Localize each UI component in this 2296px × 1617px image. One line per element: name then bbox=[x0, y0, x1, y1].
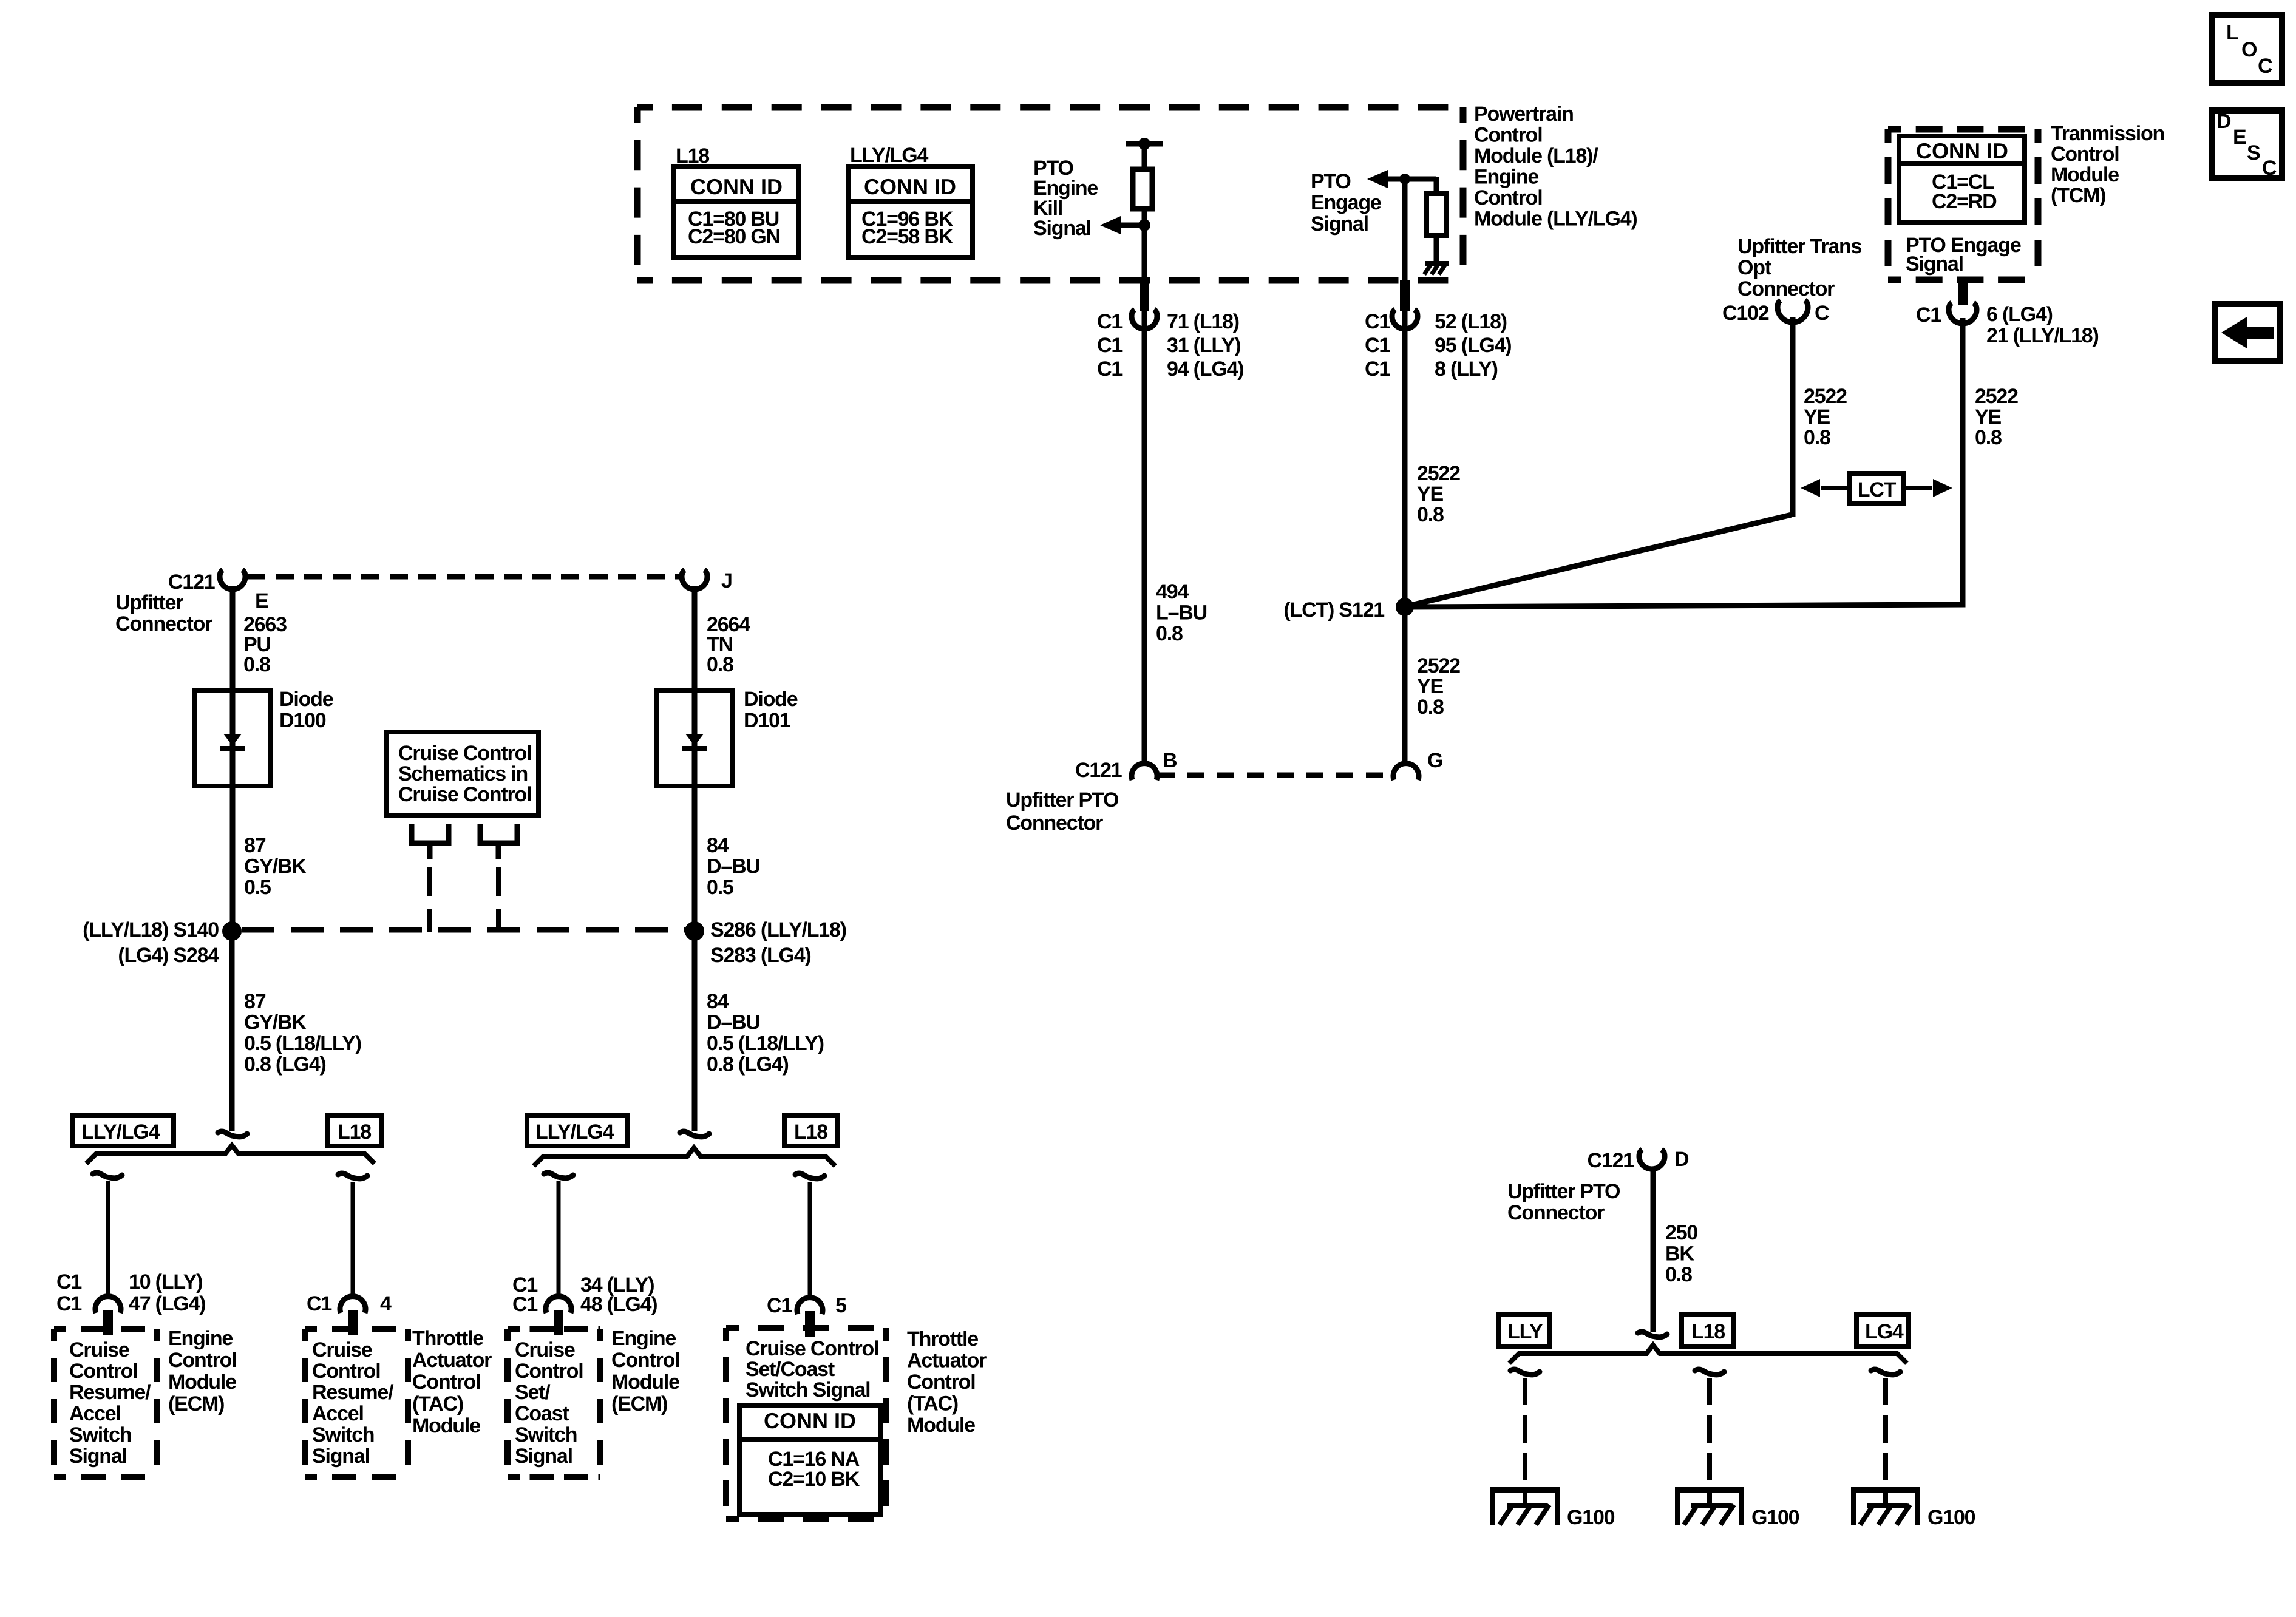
svg-text:C1: C1 bbox=[1365, 358, 1390, 381]
svg-text:CONN ID: CONN ID bbox=[1916, 138, 2008, 163]
ground G100 (LG4) bbox=[1851, 1487, 1975, 1529]
svg-text:G100: G100 bbox=[1567, 1506, 1615, 1529]
wire label 84 D-BU 0.5/0.8 (lower right) bbox=[707, 990, 824, 1076]
svg-text:Diode: Diode bbox=[744, 688, 798, 711]
svg-text:Set/Coast: Set/Coast bbox=[746, 1358, 835, 1381]
option tag LG4 bbox=[1856, 1315, 1909, 1346]
svg-text:Module: Module bbox=[168, 1371, 236, 1394]
label Upfitter PTO Connector (D) bbox=[1507, 1180, 1620, 1224]
resistor (PTO engine kill pull-up) bbox=[1133, 169, 1152, 209]
svg-text:C1: C1 bbox=[56, 1270, 81, 1293]
svg-text:0.8: 0.8 bbox=[1975, 426, 2002, 449]
connector C1 (TCM PTO engage) bbox=[1949, 280, 1977, 324]
svg-text:CONN ID: CONN ID bbox=[764, 1408, 856, 1433]
svg-text:Powertrain: Powertrain bbox=[1474, 103, 1574, 126]
svg-text:Control: Control bbox=[515, 1360, 583, 1383]
pin labels C1 5 bbox=[767, 1294, 846, 1317]
continuation mark on S286 drop bbox=[680, 1131, 709, 1137]
svg-text:Module (L18)/: Module (L18)/ bbox=[1474, 144, 1598, 168]
svg-text:L18: L18 bbox=[676, 144, 709, 168]
svg-text:C1: C1 bbox=[1097, 334, 1122, 357]
svg-text:C1: C1 bbox=[1365, 310, 1390, 333]
svg-text:47 (LG4): 47 (LG4) bbox=[129, 1292, 205, 1315]
continuation mark LLY ground branch bbox=[1510, 1369, 1540, 1375]
dashed link B to G (C121 Upfitter PTO Connector) bbox=[1158, 773, 1393, 778]
wire: D drop (ground feed) bbox=[1651, 1169, 1656, 1332]
svg-text:LLY/LG4: LLY/LG4 bbox=[850, 144, 929, 167]
label Tranmission Control Module (TCM) bbox=[2051, 122, 2164, 207]
svg-text:Control: Control bbox=[412, 1371, 480, 1394]
CONN ID table (LLY/LG4) bbox=[848, 167, 973, 257]
svg-text:Resume/: Resume/ bbox=[69, 1381, 151, 1404]
diode D100 bbox=[194, 690, 271, 786]
svg-text:C1: C1 bbox=[1365, 334, 1390, 357]
svg-text:E: E bbox=[2233, 126, 2246, 149]
svg-text:0.8 (LG4): 0.8 (LG4) bbox=[707, 1053, 789, 1076]
svg-text:L18: L18 bbox=[338, 1120, 371, 1144]
svg-text:C1: C1 bbox=[307, 1292, 331, 1315]
connector C1 (kill signal) at PCM boundary bbox=[1132, 280, 1157, 329]
label Powertrain Control Module (L18)/ Engine Control Module (LLY/LG4) bbox=[1474, 103, 1637, 231]
svg-text:C1: C1 bbox=[1916, 303, 1941, 327]
continuation mark branch A bbox=[93, 1173, 122, 1178]
svg-text:Actuator: Actuator bbox=[907, 1349, 987, 1372]
svg-text:Set/: Set/ bbox=[515, 1381, 551, 1404]
svg-text:C121: C121 bbox=[168, 571, 215, 594]
svg-text:87: 87 bbox=[244, 834, 266, 857]
wire: C102 drop bbox=[1790, 317, 1796, 517]
option tag LLY/LG4 (group C) bbox=[527, 1116, 628, 1146]
wire: S140 drop to option split bbox=[229, 931, 235, 1131]
pin labels C1 52/95/8 bbox=[1365, 310, 1511, 381]
svg-text:52 (L18): 52 (L18) bbox=[1435, 310, 1507, 333]
connector C102 pin C bbox=[1722, 300, 1829, 325]
wire: S286 drop to option split bbox=[692, 931, 698, 1131]
svg-text:Engine: Engine bbox=[611, 1327, 676, 1350]
svg-text:48 (LG4): 48 (LG4) bbox=[580, 1293, 657, 1316]
svg-text:C121: C121 bbox=[1075, 759, 1122, 782]
svg-text:Resume/: Resume/ bbox=[312, 1381, 394, 1404]
LCT option tag with arrows bbox=[1801, 473, 1952, 504]
svg-text:0.8: 0.8 bbox=[1417, 503, 1444, 526]
svg-text:Engine: Engine bbox=[1474, 166, 1538, 189]
svg-text:Cruise: Cruise bbox=[312, 1338, 372, 1361]
label Upfitter Trans Opt Connector bbox=[1737, 235, 1862, 300]
dashed box: Cruise Control Set/Coast Switch Signal (TAC) with CONN ID bbox=[726, 1328, 886, 1519]
svg-text:S283 (LG4): S283 (LG4) bbox=[710, 944, 811, 967]
svg-text:Cruise Control: Cruise Control bbox=[398, 742, 531, 765]
ground G100 (LLY) bbox=[1490, 1487, 1615, 1529]
svg-text:GY/BK: GY/BK bbox=[244, 1011, 307, 1034]
svg-text:LG4: LG4 bbox=[1865, 1320, 1904, 1343]
svg-text:Cruise: Cruise bbox=[515, 1338, 575, 1361]
connector C121 pin G bbox=[1393, 749, 1442, 780]
svg-text:C121: C121 bbox=[1588, 1149, 1634, 1172]
svg-text:4: 4 bbox=[380, 1292, 392, 1315]
svg-text:Connector: Connector bbox=[1737, 277, 1835, 300]
svg-text:Cruise Control: Cruise Control bbox=[746, 1337, 878, 1360]
svg-text:PTO: PTO bbox=[1311, 170, 1351, 193]
dashed box: Cruise Control Resume/Accel Switch Signal (TAC) bbox=[305, 1329, 408, 1477]
svg-text:L18: L18 bbox=[794, 1120, 827, 1144]
connector C121 pin E bbox=[168, 570, 268, 612]
svg-text:(ECM): (ECM) bbox=[611, 1392, 667, 1415]
connector C1 (ECM set/coast) bbox=[546, 1297, 571, 1335]
svg-text:E: E bbox=[255, 589, 268, 612]
svg-text:0.8: 0.8 bbox=[1417, 696, 1444, 719]
connector C121 pin B bbox=[1075, 749, 1177, 782]
labels (LLY/L18) S140 / (LG4) S284 bbox=[83, 918, 219, 967]
svg-text:2522: 2522 bbox=[1417, 654, 1460, 677]
option tag L18 (ground) bbox=[1682, 1315, 1734, 1346]
label PTO Engage Signal bbox=[1311, 170, 1381, 236]
svg-text:(LG4) S284: (LG4) S284 bbox=[118, 944, 219, 967]
svg-text:Upfitter PTO: Upfitter PTO bbox=[1507, 1180, 1620, 1203]
svg-text:G100: G100 bbox=[1751, 1506, 1799, 1529]
connector C1 (ECM resume/accel) bbox=[95, 1297, 121, 1335]
option tag L18 (group B) bbox=[328, 1116, 381, 1146]
svg-text:Connector: Connector bbox=[115, 612, 212, 636]
wire label 2522 YE 0.8 (upper) bbox=[1417, 462, 1460, 526]
label Throttle Actuator Control (TAC) Module - group D bbox=[907, 1327, 987, 1437]
ground G100 (L18) bbox=[1675, 1487, 1799, 1529]
svg-text:Signal: Signal bbox=[1311, 212, 1368, 236]
dashed box: Cruise Control Set/Coast Switch Signal (ECM) bbox=[508, 1329, 600, 1477]
svg-text:Signal: Signal bbox=[1906, 253, 1963, 276]
continuation mark LG4 ground branch bbox=[1871, 1369, 1900, 1375]
label Diode D101 bbox=[744, 688, 798, 732]
svg-text:YE: YE bbox=[1417, 675, 1443, 698]
svg-text:31 (LLY): 31 (LLY) bbox=[1167, 334, 1240, 357]
svg-text:Switch Signal: Switch Signal bbox=[746, 1378, 870, 1402]
svg-text:2522: 2522 bbox=[1417, 462, 1460, 485]
svg-text:Accel: Accel bbox=[312, 1402, 364, 1425]
label Engine Control Module (ECM) - group A bbox=[168, 1327, 236, 1415]
wire label 494 L-BU 0.8 bbox=[1156, 580, 1207, 645]
svg-text:494: 494 bbox=[1156, 580, 1189, 603]
svg-text:LCT: LCT bbox=[1858, 478, 1897, 501]
option tag LLY bbox=[1498, 1315, 1549, 1346]
junction dot on kill wire bbox=[1138, 219, 1150, 231]
node: kill-signal top bar with junction dot bbox=[1126, 138, 1163, 150]
svg-text:0.5: 0.5 bbox=[707, 876, 733, 899]
svg-text:Diode: Diode bbox=[279, 688, 333, 711]
back-arrow index box bbox=[2215, 304, 2280, 361]
svg-text:(LCT) S121: (LCT) S121 bbox=[1283, 598, 1384, 622]
splice S286 bbox=[685, 921, 704, 941]
resistor (PTO engage pull-down) bbox=[1427, 194, 1447, 236]
svg-text:87: 87 bbox=[244, 990, 266, 1013]
svg-text:C1: C1 bbox=[1097, 358, 1122, 381]
svg-text:LLY: LLY bbox=[1507, 1320, 1543, 1343]
svg-text:Module: Module bbox=[611, 1371, 679, 1394]
wire: engage signal vertical bbox=[1402, 179, 1408, 764]
dashed link S140 to S286 bbox=[242, 927, 685, 933]
pin labels C1 71/31/94 bbox=[1097, 310, 1243, 381]
svg-text:S286 (LLY/L18): S286 (LLY/L18) bbox=[710, 918, 846, 941]
svg-text:Schematics in: Schematics in bbox=[398, 762, 528, 785]
arrow: engage signal output bbox=[1367, 170, 1436, 188]
wire label 2522 YE 0.8 (lower) bbox=[1417, 654, 1460, 719]
wire: resistor to chassis ground bbox=[1434, 236, 1439, 265]
continuation mark branch D bbox=[795, 1173, 824, 1179]
svg-text:D: D bbox=[1674, 1148, 1689, 1171]
svg-text:Engage: Engage bbox=[1311, 191, 1381, 214]
svg-text:S: S bbox=[2247, 141, 2260, 164]
wire: J drop through diode D101 bbox=[692, 586, 698, 931]
svg-text:Control: Control bbox=[611, 1349, 679, 1372]
wire: resistor to junction bbox=[1142, 209, 1147, 229]
label Engine Control Module (ECM) - group C bbox=[611, 1327, 679, 1415]
svg-text:6 (LG4): 6 (LG4) bbox=[1986, 303, 2053, 326]
svg-text:Coast: Coast bbox=[515, 1402, 569, 1425]
dashed box: Cruise Control Resume/Accel Switch Signal (ECM) bbox=[54, 1329, 157, 1477]
wire label 2664 TN 0.8 bbox=[707, 613, 750, 676]
svg-text:L–BU: L–BU bbox=[1156, 602, 1207, 625]
svg-text:Cruise: Cruise bbox=[69, 1338, 129, 1361]
svg-text:Control: Control bbox=[69, 1360, 137, 1383]
svg-text:8 (LLY): 8 (LLY) bbox=[1435, 358, 1498, 381]
svg-text:C2=10 BK: C2=10 BK bbox=[768, 1468, 860, 1491]
svg-text:Throttle: Throttle bbox=[907, 1327, 978, 1351]
svg-text:Actuator: Actuator bbox=[412, 1349, 492, 1372]
svg-text:Throttle: Throttle bbox=[412, 1327, 483, 1350]
wire label 87 GY/BK 0.5/0.8 (lower left) bbox=[244, 990, 361, 1076]
svg-text:D101: D101 bbox=[744, 709, 790, 732]
svg-text:Control: Control bbox=[907, 1371, 975, 1394]
label PTO Engine Kill Signal bbox=[1033, 157, 1098, 240]
DESC index box bbox=[2212, 110, 2282, 180]
pin labels C1 6/21 bbox=[1916, 303, 2099, 347]
svg-text:D100: D100 bbox=[279, 709, 326, 732]
svg-text:C2=58 BK: C2=58 BK bbox=[861, 225, 954, 248]
LOC index box bbox=[2212, 15, 2282, 83]
svg-text:Control: Control bbox=[2051, 143, 2119, 166]
svg-text:5: 5 bbox=[835, 1294, 846, 1317]
continuation mark L18 ground branch bbox=[1695, 1369, 1724, 1375]
svg-text:D–BU: D–BU bbox=[707, 1011, 760, 1034]
svg-text:Cruise Control: Cruise Control bbox=[398, 783, 531, 806]
svg-text:G: G bbox=[1427, 749, 1442, 772]
PCM/ECM module dashed box bbox=[637, 104, 1463, 111]
svg-text:(TCM): (TCM) bbox=[2051, 184, 2105, 207]
wire label 250 BK 0.8 bbox=[1665, 1221, 1697, 1286]
svg-text:Control: Control bbox=[312, 1360, 380, 1383]
wire: diagonal C102 to splice S121 bbox=[1406, 515, 1792, 606]
svg-text:L18: L18 bbox=[1691, 1320, 1725, 1343]
dashed drop from right bracket bbox=[496, 867, 501, 932]
svg-text:(TAC): (TAC) bbox=[907, 1392, 958, 1415]
svg-text:250: 250 bbox=[1665, 1221, 1697, 1244]
svg-text:2522: 2522 bbox=[1804, 385, 1847, 408]
svg-text:84: 84 bbox=[707, 990, 729, 1013]
svg-text:0.5: 0.5 bbox=[244, 876, 271, 899]
connector C1 (TAC set/coast) bbox=[797, 1298, 823, 1337]
svg-text:GY/BK: GY/BK bbox=[244, 855, 307, 878]
svg-text:C1: C1 bbox=[512, 1293, 537, 1316]
svg-text:Connector: Connector bbox=[1006, 812, 1103, 835]
svg-text:D–BU: D–BU bbox=[707, 855, 760, 878]
label Upfitter PTO Connector (B/G) bbox=[1006, 788, 1119, 835]
dashed drop from left bracket bbox=[427, 867, 432, 932]
junction dot on engage wire bbox=[1399, 174, 1410, 185]
CONN ID table (TAC set/coast) bbox=[739, 1406, 880, 1514]
wire: branch A drop bbox=[106, 1181, 110, 1298]
svg-text:Module: Module bbox=[907, 1414, 975, 1437]
svg-text:95 (LG4): 95 (LG4) bbox=[1435, 334, 1511, 357]
svg-text:B: B bbox=[1163, 749, 1177, 772]
wire label 2663 PU 0.8 bbox=[243, 613, 287, 676]
svg-text:71 (L18): 71 (L18) bbox=[1167, 310, 1239, 333]
svg-text:BK: BK bbox=[1665, 1242, 1694, 1266]
continuation mark on S140 drop bbox=[218, 1131, 247, 1137]
svg-text:C1: C1 bbox=[767, 1294, 792, 1317]
wire label 2522 YE 0.8 (TCM) bbox=[1975, 385, 2018, 449]
connector C1 (TAC resume/accel) bbox=[340, 1297, 365, 1335]
svg-text:Accel: Accel bbox=[69, 1402, 121, 1425]
wire label 87 GY/BK 0.5 bbox=[244, 834, 307, 899]
option split brace (groups C/D) bbox=[534, 1148, 835, 1166]
option split brace (groups A/B) bbox=[86, 1145, 375, 1164]
svg-text:0.8: 0.8 bbox=[243, 653, 270, 676]
wire: branch B drop bbox=[351, 1182, 355, 1298]
svg-text:LLY/LG4: LLY/LG4 bbox=[81, 1120, 160, 1144]
svg-text:CONN ID: CONN ID bbox=[864, 174, 956, 199]
svg-text:CONN ID: CONN ID bbox=[690, 174, 783, 199]
svg-text:10 (LLY): 10 (LLY) bbox=[129, 1270, 202, 1293]
arrow: kill signal output bbox=[1100, 216, 1144, 234]
svg-text:Upfitter Trans: Upfitter Trans bbox=[1737, 235, 1862, 258]
CONN ID table (TCM) bbox=[1899, 136, 2025, 222]
svg-text:Module: Module bbox=[412, 1414, 480, 1437]
splice S140 bbox=[222, 921, 242, 941]
continuation mark branch C bbox=[544, 1173, 573, 1178]
svg-text:O: O bbox=[2241, 38, 2257, 61]
svg-text:LLY/LG4: LLY/LG4 bbox=[535, 1120, 614, 1144]
diode D101 bbox=[656, 690, 733, 786]
label Throttle Actuator Control (TAC) Module - group B bbox=[412, 1327, 492, 1437]
wire: branch C drop bbox=[557, 1181, 561, 1298]
svg-text:D: D bbox=[2216, 110, 2231, 133]
option tag LLY/LG4 (group A) bbox=[73, 1116, 174, 1146]
wire: engage branch to resistor bbox=[1405, 177, 1436, 196]
svg-text:0.8 (LG4): 0.8 (LG4) bbox=[244, 1053, 326, 1076]
svg-text:84: 84 bbox=[707, 834, 729, 857]
svg-text:Control: Control bbox=[1474, 124, 1542, 147]
svg-text:Switch: Switch bbox=[69, 1423, 131, 1446]
dashed wire: LG4 to G100 bbox=[1883, 1378, 1888, 1505]
svg-text:Upfitter PTO: Upfitter PTO bbox=[1006, 788, 1119, 812]
continuation mark branch B bbox=[338, 1173, 367, 1179]
pin labels C1 C1 34/48 bbox=[512, 1273, 657, 1316]
svg-text:C1: C1 bbox=[1097, 310, 1122, 333]
svg-text:C102: C102 bbox=[1722, 302, 1769, 325]
svg-text:Signal: Signal bbox=[312, 1445, 370, 1468]
svg-text:J: J bbox=[721, 569, 732, 592]
svg-text:C: C bbox=[2262, 157, 2277, 180]
wire: bar to resistor bbox=[1142, 144, 1147, 172]
dashed link E to J bbox=[247, 574, 680, 580]
svg-text:(ECM): (ECM) bbox=[168, 1392, 224, 1415]
bracket connector (left) under cruise box bbox=[409, 824, 451, 859]
svg-text:0.5 (L18/LLY): 0.5 (L18/LLY) bbox=[244, 1032, 361, 1055]
svg-text:0.8: 0.8 bbox=[707, 653, 733, 676]
svg-text:Signal: Signal bbox=[1033, 217, 1091, 240]
svg-text:Control: Control bbox=[168, 1349, 236, 1372]
wire: TCM engage drop bbox=[1405, 318, 1963, 607]
svg-text:0.8: 0.8 bbox=[1804, 426, 1830, 449]
svg-text:(LLY/L18) S140: (LLY/L18) S140 bbox=[83, 918, 219, 941]
svg-text:Engine: Engine bbox=[168, 1327, 233, 1350]
svg-text:94 (LG4): 94 (LG4) bbox=[1167, 358, 1243, 381]
svg-text:Signal: Signal bbox=[69, 1445, 127, 1468]
svg-text:G100: G100 bbox=[1927, 1506, 1975, 1529]
chassis ground (inside PCM) bbox=[1424, 263, 1449, 274]
svg-text:YE: YE bbox=[1804, 405, 1830, 429]
continuation mark on ground feed bbox=[1638, 1332, 1667, 1337]
connector J bbox=[682, 569, 732, 592]
wire: E drop through diode D100 bbox=[230, 586, 236, 931]
splice S121 bbox=[1396, 598, 1414, 616]
connector C121 pin D bbox=[1588, 1148, 1689, 1172]
svg-text:Switch: Switch bbox=[515, 1423, 577, 1446]
svg-text:0.5 (L18/LLY): 0.5 (L18/LLY) bbox=[707, 1032, 824, 1055]
svg-text:C2=RD: C2=RD bbox=[1932, 190, 1997, 213]
option tag L18 (group D) bbox=[784, 1116, 838, 1146]
svg-text:21 (LLY/L18): 21 (LLY/L18) bbox=[1986, 324, 2099, 347]
pin labels C1 4 bbox=[307, 1292, 392, 1315]
svg-text:Upfitter: Upfitter bbox=[115, 591, 183, 614]
cruise control schematics reference box bbox=[387, 732, 538, 815]
svg-text:Switch: Switch bbox=[312, 1423, 374, 1446]
svg-text:C2=80 GN: C2=80 GN bbox=[688, 225, 780, 248]
svg-text:C: C bbox=[2258, 55, 2272, 78]
bracket connector (right) under cruise box bbox=[478, 824, 520, 859]
option split brace (grounds) bbox=[1509, 1345, 1907, 1363]
svg-text:YE: YE bbox=[1417, 483, 1443, 506]
TCM dashed box bbox=[1888, 126, 2038, 133]
svg-text:Control: Control bbox=[1474, 186, 1542, 209]
wire: branch D drop bbox=[808, 1182, 812, 1299]
svg-text:Module: Module bbox=[2051, 163, 2119, 186]
CONN ID table (L18) bbox=[674, 167, 799, 257]
svg-text:Tranmission: Tranmission bbox=[2051, 122, 2164, 145]
wire label 2522 YE 0.8 (C102) bbox=[1804, 385, 1847, 449]
svg-text:Signal: Signal bbox=[515, 1445, 572, 1468]
wire label 84 D-BU 0.5 bbox=[707, 834, 760, 899]
dashed wire: LLY to G100 bbox=[1523, 1378, 1527, 1505]
wire: engine kill signal vertical bbox=[1142, 225, 1147, 764]
svg-text:Connector: Connector bbox=[1507, 1201, 1605, 1224]
svg-text:2522: 2522 bbox=[1975, 385, 2018, 408]
svg-text:(TAC): (TAC) bbox=[412, 1392, 463, 1415]
svg-text:0.8: 0.8 bbox=[1665, 1263, 1692, 1286]
svg-text:C1: C1 bbox=[56, 1292, 81, 1315]
connector C1 (engage signal) at PCM boundary bbox=[1392, 280, 1418, 329]
pin labels C1 C1 10/47 bbox=[56, 1270, 205, 1315]
label Diode D100 bbox=[279, 688, 333, 732]
svg-text:C: C bbox=[1815, 302, 1829, 325]
labels S286 (LLY/L18) / S283 (LG4) bbox=[710, 918, 846, 967]
svg-text:Opt: Opt bbox=[1737, 256, 1771, 279]
svg-text:L: L bbox=[2226, 21, 2238, 44]
svg-text:YE: YE bbox=[1975, 405, 2001, 429]
label PTO Engage Signal (TCM) bbox=[1906, 234, 2021, 276]
dashed wire: L18 to G100 bbox=[1707, 1378, 1712, 1505]
svg-text:0.8: 0.8 bbox=[1156, 622, 1183, 645]
svg-text:Module (LLY/LG4): Module (LLY/LG4) bbox=[1474, 208, 1637, 231]
label Upfitter Connector (C121-E) bbox=[115, 591, 212, 636]
